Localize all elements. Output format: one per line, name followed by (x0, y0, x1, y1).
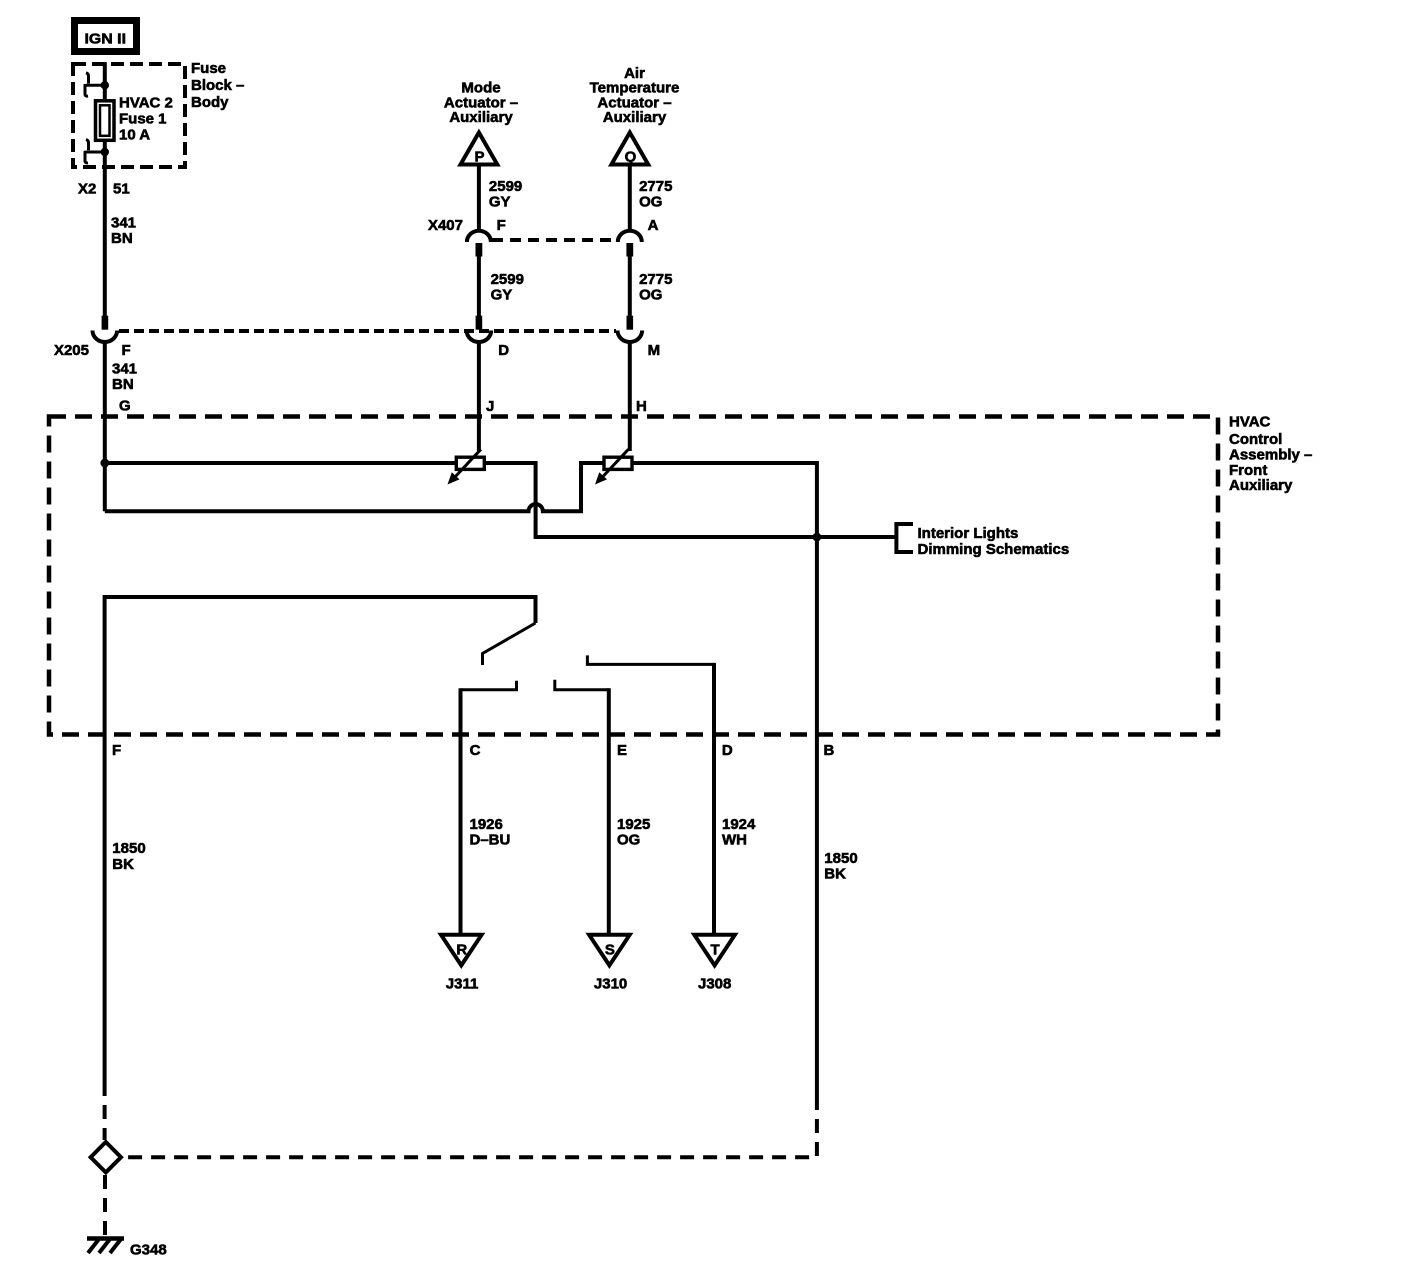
Air Temperature Actuator label (590, 65, 680, 126)
svg-text:P: P (474, 149, 484, 166)
svg-text:BK: BK (824, 866, 846, 883)
node junction at B (813, 533, 822, 542)
label 1924 WH (722, 816, 756, 849)
wire pin C to J311 (459, 737, 463, 933)
svg-text:OG: OG (639, 193, 662, 210)
svg-text:IGN II: IGN II (85, 31, 127, 48)
wire to interior lights bracket (896, 522, 913, 554)
X205 dotted connector line (119, 329, 616, 333)
svg-text:341: 341 (112, 361, 137, 378)
label 1925 OG (617, 816, 650, 849)
connector X205 D cup (467, 331, 492, 343)
splice triangle R (441, 935, 482, 966)
svg-text:1850: 1850 (824, 850, 857, 867)
connector triangle Q (611, 133, 648, 166)
wire X407 to X205 left (477, 257, 481, 317)
power feed box IGN II (75, 21, 137, 52)
svg-text:341: 341 (111, 215, 136, 232)
wire X205 F to HVAC box (103, 342, 107, 464)
svg-text:X2: X2 (78, 181, 96, 198)
ground G348 (87, 1239, 124, 1254)
svg-text:Auxiliary: Auxiliary (1229, 477, 1293, 494)
svg-text:2775: 2775 (639, 271, 672, 288)
dashed wire left to splice (103, 1082, 107, 1140)
connector X205 F cup (93, 331, 118, 343)
svg-text:1850: 1850 (112, 840, 145, 857)
node junction at G branch (100, 459, 109, 468)
wire pin F down (103, 737, 107, 1082)
label 2775 OG upper (639, 178, 672, 210)
svg-text:1926: 1926 (470, 816, 503, 833)
connector X205 D pin (476, 316, 483, 330)
svg-text:C: C (470, 742, 481, 759)
connector X407 A arc (618, 231, 642, 242)
wire bus upper left (105, 463, 897, 537)
connector X205 F pin (102, 316, 109, 330)
label X2 51 (78, 181, 130, 198)
svg-text:Interior Lights: Interior Lights (918, 525, 1019, 542)
label 341 BN lower (112, 361, 137, 394)
fuse block body dashed box (73, 64, 185, 167)
wire pin E to J310 (607, 737, 611, 933)
wire branch down to second bus (103, 463, 107, 511)
clip symbol lower (85, 140, 101, 163)
svg-text:Auxiliary: Auxiliary (449, 109, 513, 126)
splice triangle S (589, 935, 630, 966)
switch contact E (555, 680, 609, 690)
Mode Actuator label (444, 80, 518, 127)
svg-text:T: T (711, 942, 720, 959)
svg-text:Dimming Schematics: Dimming Schematics (918, 541, 1070, 558)
svg-text:HVAC 2: HVAC 2 (119, 95, 173, 112)
svg-text:GY: GY (491, 287, 513, 304)
connector X407 F arc (467, 231, 491, 242)
svg-text:1925: 1925 (617, 816, 650, 833)
connector triangle P (461, 133, 498, 166)
svg-text:Q: Q (625, 149, 637, 166)
label 1850 BK right (824, 850, 857, 883)
fuse HVAC 2 Fuse 1 10A (96, 101, 115, 141)
svg-text:51: 51 (113, 181, 130, 198)
label X205 F (54, 342, 131, 359)
svg-text:HVAC: HVAC (1229, 414, 1271, 431)
svg-text:D: D (498, 342, 509, 359)
potentiometer wiper 2 (595, 449, 632, 484)
wire X407 to X205 right (628, 257, 632, 317)
label 1926 D-BU (470, 816, 511, 849)
X407 dashed connector line (492, 238, 616, 242)
svg-text:X407: X407 (428, 217, 463, 234)
svg-text:Control: Control (1229, 431, 1282, 448)
node junction upper clip (101, 81, 109, 89)
switch contact C (461, 681, 517, 690)
label Fuse Block - Body (191, 60, 244, 111)
svg-text:Assembly –: Assembly – (1229, 447, 1312, 464)
svg-text:M: M (648, 342, 661, 359)
wire fuse to X205 (103, 142, 107, 316)
label X407 F (428, 217, 506, 234)
wire from IGN II into fuse block (103, 62, 107, 99)
HVAC Control Assembly dashed box (49, 417, 1218, 735)
switch link to D (587, 655, 714, 664)
svg-text:Fuse: Fuse (191, 60, 226, 77)
connector X407 F pin (476, 243, 483, 257)
svg-text:1924: 1924 (722, 816, 756, 833)
label 2775 OG lower (639, 271, 672, 304)
svg-text:X205: X205 (54, 342, 89, 359)
potentiometer wiper 1 (448, 449, 485, 484)
svg-text:F: F (497, 217, 506, 234)
svg-text:WH: WH (722, 832, 747, 849)
svg-text:D: D (722, 742, 733, 759)
svg-text:OG: OG (639, 287, 662, 304)
connector X205 M pin (627, 316, 634, 330)
svg-text:Body: Body (191, 94, 229, 111)
wire second bus with hop (105, 463, 817, 737)
wire X205 D to pot1 (477, 342, 481, 452)
connector X407 A pin (626, 243, 633, 257)
label 1850 BK left (112, 840, 145, 873)
svg-text:Block –: Block – (191, 77, 244, 94)
clip symbol upper (85, 73, 101, 96)
svg-text:H: H (636, 398, 647, 415)
svg-text:BN: BN (111, 230, 133, 247)
svg-text:BN: BN (112, 376, 134, 393)
splice diamond (91, 1142, 121, 1172)
svg-text:B: B (824, 742, 835, 759)
svg-text:J: J (486, 398, 494, 415)
svg-text:F: F (122, 342, 131, 359)
label 2599 GY upper (489, 178, 522, 210)
wire X205 M to pot2 (628, 342, 632, 452)
svg-text:E: E (617, 742, 627, 759)
svg-text:10 A: 10 A (119, 127, 150, 144)
label 2599 GY lower (491, 271, 524, 304)
svg-text:J311: J311 (446, 976, 479, 993)
svg-text:Fuse 1: Fuse 1 (119, 111, 167, 128)
svg-text:2599: 2599 (491, 271, 524, 288)
svg-text:G: G (119, 398, 131, 415)
node junction lower clip (101, 148, 109, 156)
wire pin D to J308 (712, 737, 716, 933)
svg-text:BK: BK (112, 856, 134, 873)
svg-text:R: R (456, 942, 467, 959)
label HVAC Control Assembly Front Auxiliary (1229, 414, 1312, 495)
svg-text:G348: G348 (130, 1242, 167, 1259)
svg-text:GY: GY (489, 193, 511, 210)
label HVAC 2 Fuse 1 10 A (119, 95, 173, 144)
svg-text:S: S (605, 942, 615, 959)
wire switch feed from pin F (105, 597, 536, 737)
wire P to X407 (477, 165, 481, 232)
svg-text:J308: J308 (698, 976, 731, 993)
dashed wire splice to ground (103, 1175, 107, 1237)
splice triangle T (694, 935, 735, 966)
svg-text:OG: OG (617, 832, 640, 849)
svg-text:D–BU: D–BU (470, 832, 511, 849)
svg-text:Auxiliary: Auxiliary (603, 109, 667, 126)
svg-text:J310: J310 (594, 976, 627, 993)
svg-text:F: F (112, 742, 121, 759)
connector X205 M cup (618, 331, 643, 342)
wire pin B down (815, 737, 819, 1096)
label Interior Lights Dimming Schematics (918, 525, 1070, 558)
svg-text:A: A (648, 217, 659, 234)
dashed wire right to splice corner (124, 1096, 817, 1157)
wire Q to X407 (628, 165, 632, 232)
switch blade (483, 623, 536, 665)
label 341 BN (111, 215, 136, 248)
